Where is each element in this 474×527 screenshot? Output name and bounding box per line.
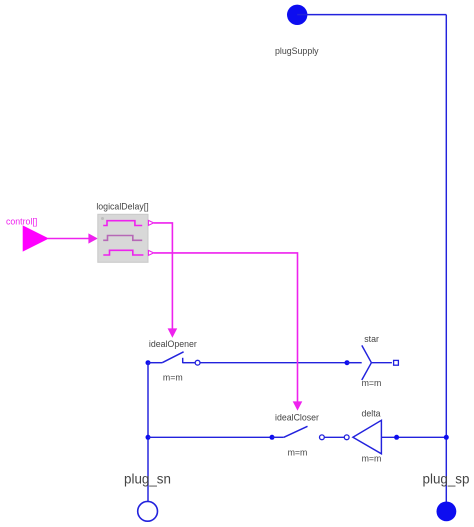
output port y2 [148, 250, 153, 255]
star symbol [347, 345, 392, 380]
arrowhead into idealCloser [293, 401, 303, 410]
svg-text:m=m: m=m [163, 373, 183, 383]
svg-text:idealCloser: idealCloser [275, 413, 319, 423]
block logicalDelay[] [98, 214, 148, 262]
arrowhead into idealOpener [168, 328, 178, 337]
signal wire y1 to idealOpener [154, 223, 173, 329]
wire right bus down to plug_sp [445, 15, 447, 502]
svg-text:plug_sp: plug_sp [423, 471, 470, 486]
svg-text:m=m: m=m [362, 378, 382, 388]
junction dot (sn bus / closer row) [146, 435, 151, 440]
connector plug_sn [138, 501, 158, 521]
tiny handle mark [101, 217, 104, 220]
contact circle (closer right pin) [320, 435, 325, 440]
svg-text:m=m: m=m [362, 454, 382, 464]
idealOpener switch [148, 352, 195, 363]
junction dot (closer left pin) [270, 435, 275, 440]
svg-text:plug_sn: plug_sn [124, 471, 171, 486]
input port arrow of logicalDelay [88, 233, 97, 243]
delta pin circle [344, 435, 349, 440]
waveform 3 (bottom pulse) [103, 250, 143, 255]
wire sn bus (opener row down to plug_sn) [147, 363, 149, 502]
delta triangle [353, 420, 382, 454]
wire delta to right bus [381, 436, 446, 438]
signal wire control to logicalDelay [48, 238, 90, 240]
contact circle (opener right pin) [195, 360, 200, 365]
connector plug_sp [437, 502, 457, 522]
svg-text:control[]: control[] [6, 216, 37, 226]
svg-text:delta: delta [361, 409, 380, 419]
connector control[] [23, 226, 48, 251]
junction dot (delta out) [394, 435, 399, 440]
junction dot (sn bus / opener row) [146, 360, 151, 365]
wire plugSupply to right bus [297, 14, 446, 16]
connector plugSupply [287, 5, 307, 25]
waveform 2 (middle pulse, delayed) [103, 236, 142, 241]
svg-text:idealOpener: idealOpener [149, 339, 197, 349]
wire sn bus to idealCloser [148, 436, 272, 438]
output port y1 [148, 220, 153, 225]
svg-text:logicalDelay[]: logicalDelay[] [96, 201, 148, 211]
wire opener to star [200, 362, 347, 364]
svg-text:plugSupply: plugSupply [275, 46, 319, 56]
junction dot (bus / closer row) [444, 435, 449, 440]
junction dot (star plug) [345, 360, 350, 365]
svg-text:star: star [364, 334, 379, 344]
waveform 1 (top pulse) [103, 221, 142, 226]
signal wire y2 to idealCloser [154, 253, 298, 402]
svg-text:m=m: m=m [288, 448, 308, 458]
idealCloser switch [272, 426, 308, 437]
star pin square [394, 360, 399, 365]
wire closer to delta [324, 436, 344, 438]
